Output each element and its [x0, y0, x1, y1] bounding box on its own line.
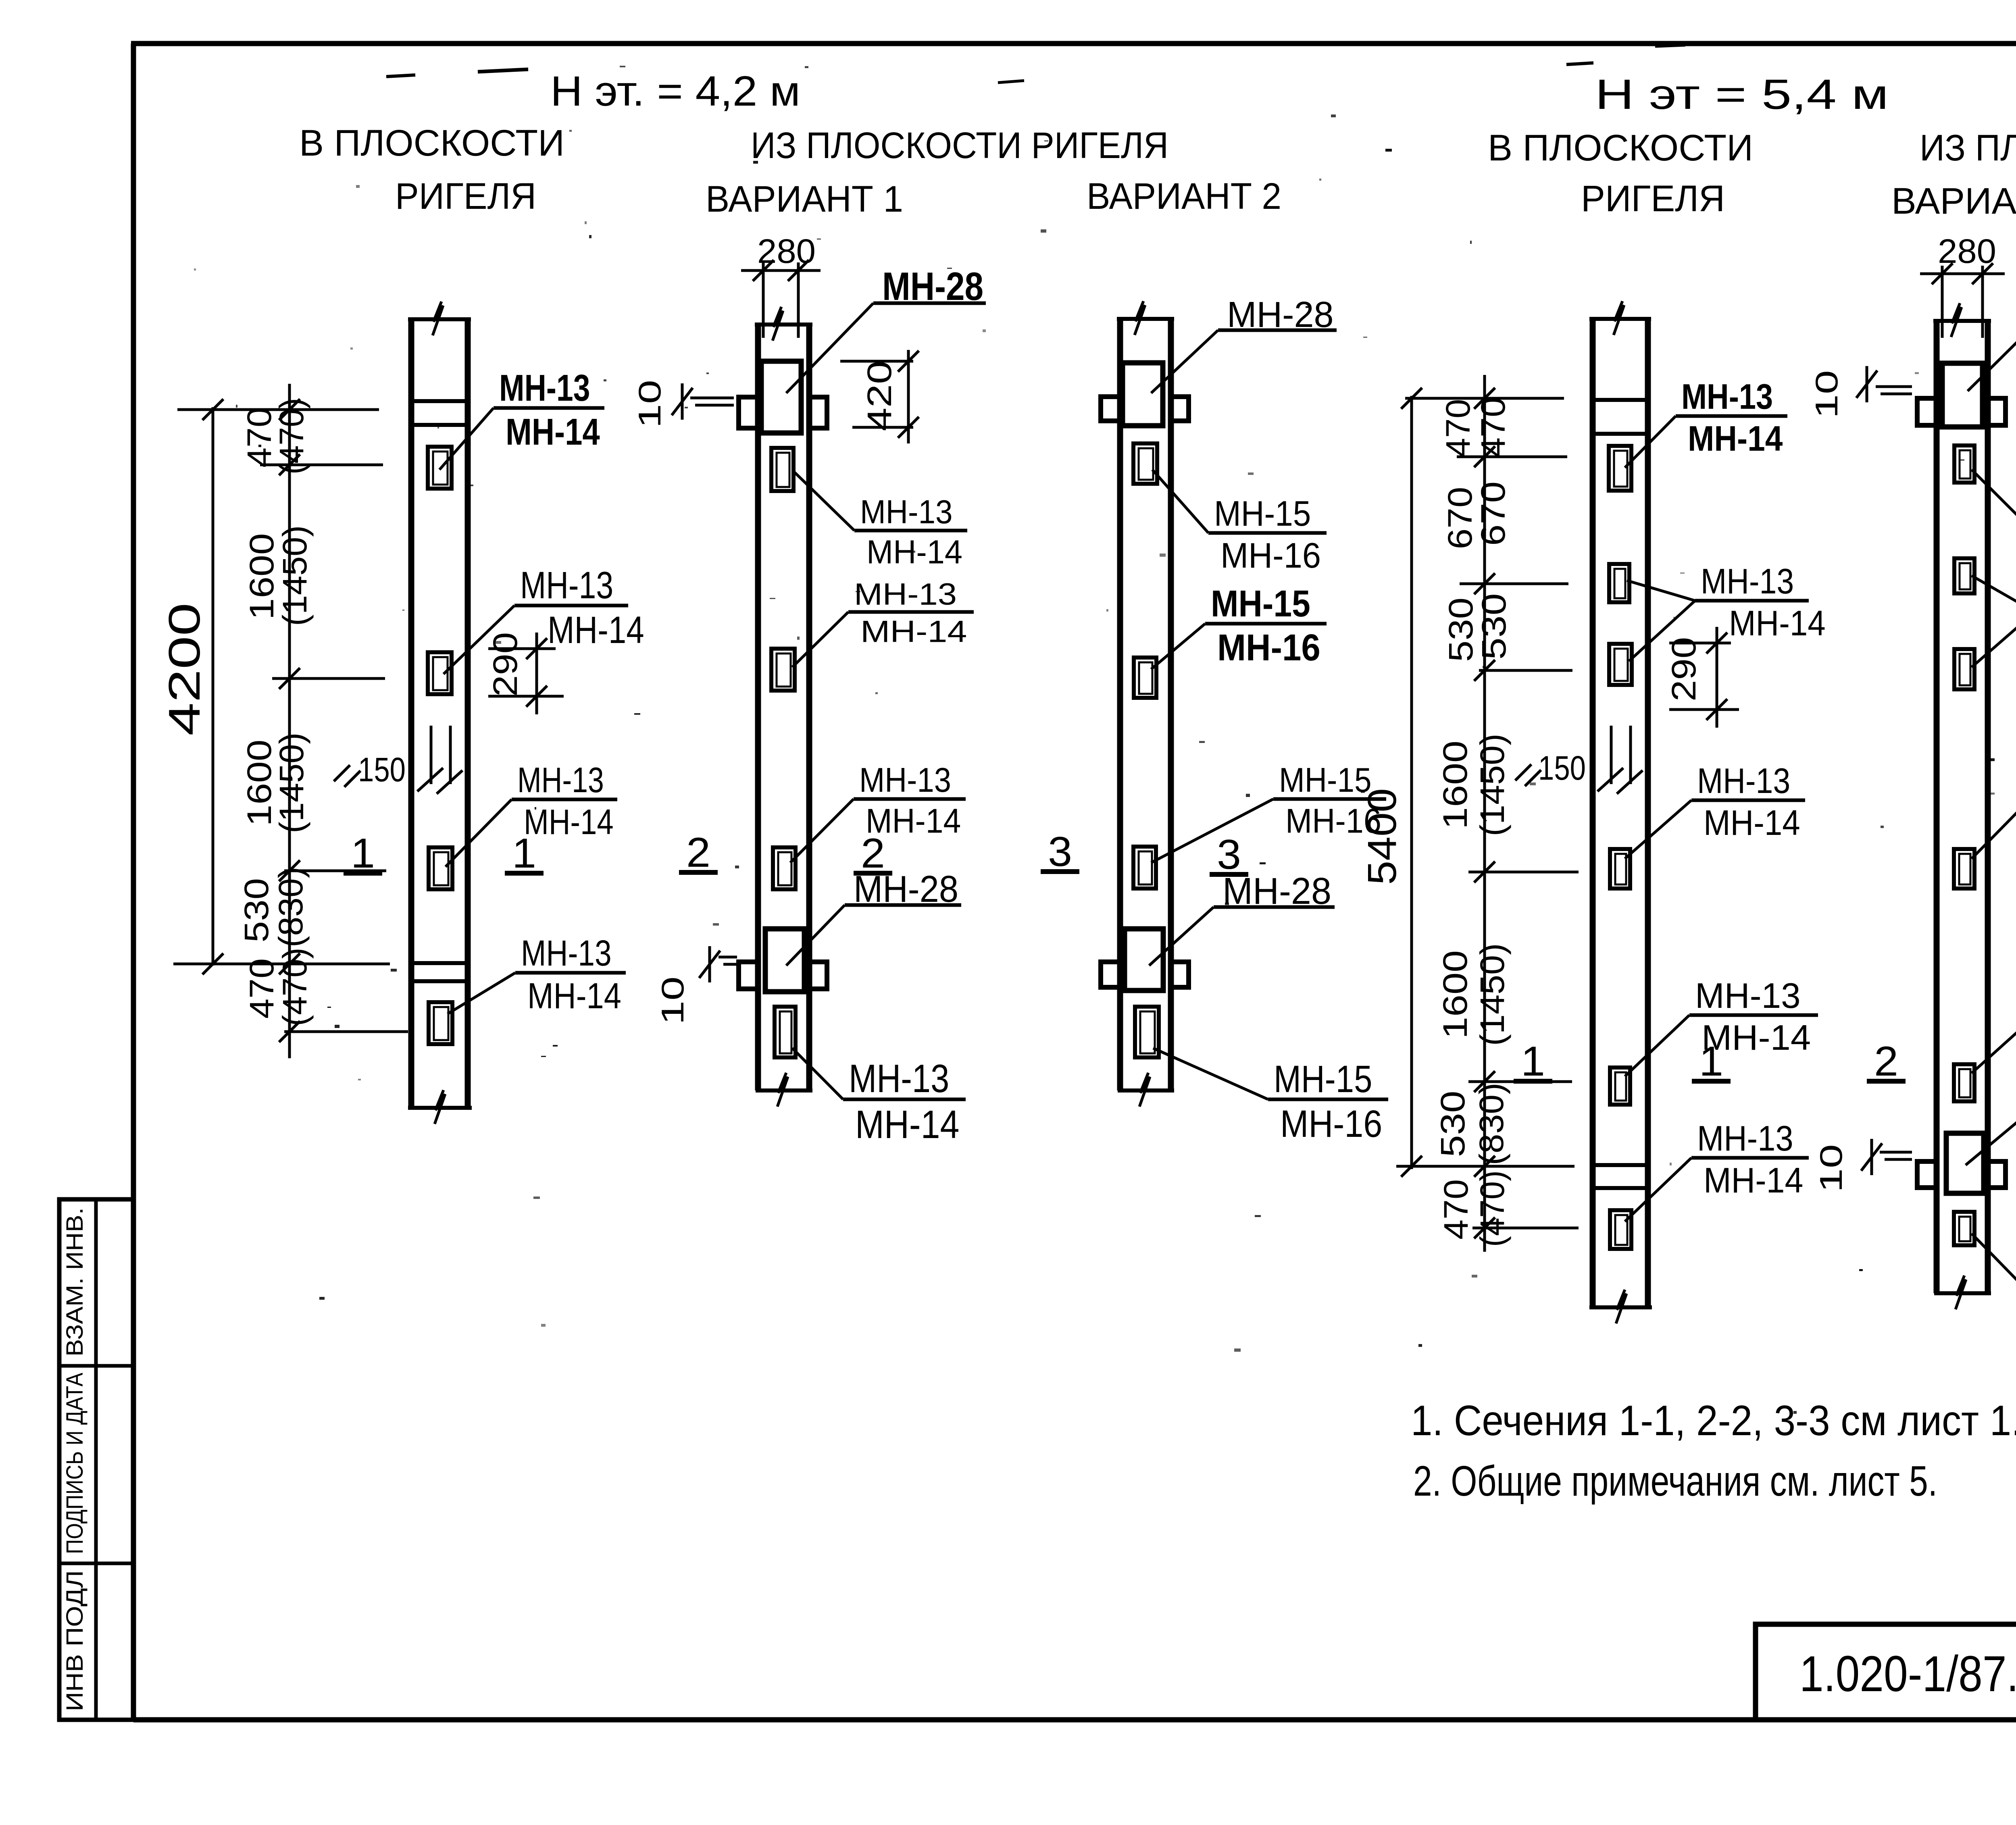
dim 10 (column 2 bottom) — [655, 946, 737, 1025]
svg-text:МН-13: МН-13 — [1701, 561, 1794, 601]
svg-text:МН-28: МН-28 — [882, 264, 983, 308]
svg-text:МН-13: МН-13 — [1697, 1118, 1793, 1158]
embed МН-13/МН-14 (K5 embed 3) — [1954, 649, 1974, 689]
svg-text:1600: 1600 — [243, 533, 281, 620]
svg-text:ПОДПИСЬ И ДАТА: ПОДПИСЬ И ДАТА — [62, 1373, 88, 1554]
heading ВАРИАНТ 1 (right) — [1891, 181, 2016, 222]
svg-text:(470): (470) — [1473, 1170, 1511, 1247]
leader (K5 embed 6) — [1972, 1234, 2016, 1298]
dim 10 (column 5 top) — [1809, 366, 1912, 418]
svg-text:РИГЕЛЯ: РИГЕЛЯ — [395, 176, 536, 217]
dim 280 (column 5) — [1920, 232, 2005, 338]
svg-text:530: 530 — [1434, 1091, 1472, 1157]
embed МН-13/МН-14 (K1 level 1) — [429, 847, 452, 889]
console МН-28 (K5 top) — [1917, 363, 2006, 427]
leader МН-28 (K3 top) — [1151, 330, 1218, 393]
svg-text:290: 290 — [1665, 637, 1703, 701]
leader (K5 embed 5) — [1972, 1012, 2016, 1073]
stray pen dashes near headings — [386, 45, 2016, 181]
leader МН-28 (K5 bottom) — [1966, 1113, 2016, 1165]
svg-text:МН-13: МН-13 — [520, 564, 613, 607]
label МН-28 (K2 bottom) — [845, 868, 961, 910]
svg-text:МН-13: МН-13 — [499, 367, 590, 409]
svg-text:530: 530 — [237, 878, 275, 943]
label МН-13/МН-14 (K1 top) — [494, 367, 604, 453]
svg-text:10: 10 — [1813, 1144, 1849, 1192]
svg-text:МН-14: МН-14 — [527, 976, 621, 1016]
leader (K3 level-3 embed) — [1151, 799, 1273, 863]
embed МН-13/МН-14 (K4 embed 4) — [1610, 849, 1630, 889]
svg-text:1: 1 — [1521, 1038, 1545, 1085]
dim 1600 / (1450) lower (right) — [1436, 943, 1511, 1046]
svg-text:(470): (470) — [273, 398, 310, 474]
label МН-13/МН-14 (K4 embed 1) — [1676, 377, 1787, 458]
svg-text:МН-13: МН-13 — [859, 761, 951, 799]
embed МН-13/МН-14 (K5 embed 4) — [1954, 849, 1974, 889]
svg-text:10: 10 — [632, 380, 667, 428]
note 1: Сечения 1-1, 2-2, 3-3 см лист 1 — [1411, 1397, 2016, 1444]
svg-text:(1450): (1450) — [276, 525, 314, 626]
svg-text:МН-13: МН-13 — [1697, 761, 1790, 801]
column K4 joint lines (top storey level) — [1593, 400, 1648, 434]
embed МН-13/МН-14 (K1 mid) — [428, 652, 452, 694]
svg-text:470: 470 — [1474, 397, 1512, 458]
svg-text:МН-13: МН-13 — [860, 493, 953, 531]
svg-text:1: 1 — [351, 830, 375, 877]
leader (K1 level-1 embed) — [446, 799, 512, 867]
embed МН-13/МН-14 (K4 embed 5) — [1610, 1068, 1630, 1105]
embed МН-13/МН-14 (K5 embed 5) — [1954, 1064, 1974, 1101]
dim 530 / (830) (right) — [1434, 1083, 1510, 1165]
extension lines (right chain) — [1396, 398, 1579, 1228]
svg-text:10: 10 — [1809, 370, 1844, 418]
svg-text:МН-13: МН-13 — [1695, 976, 1801, 1016]
svg-text:280: 280 — [1938, 232, 1996, 270]
label МН-15/МН-16 (K3 mid) — [1205, 583, 1327, 668]
svg-text:ИНВ ПОДЛ: ИНВ ПОДЛ — [62, 1570, 88, 1711]
section mark 3 (right of K3) — [1210, 831, 1248, 878]
svg-text:МН-13: МН-13 — [849, 1056, 949, 1101]
svg-text:МН-14: МН-14 — [1704, 1160, 1803, 1200]
column K2: из плоскости ригеля вариант 1, Нэт 4,2м — [755, 307, 812, 1107]
column K1 joint lines (bottom storey level) — [411, 963, 468, 981]
leader (K3 mid embed) — [1151, 624, 1205, 669]
svg-text:4200: 4200 — [160, 603, 209, 736]
svg-text:МН-13: МН-13 — [854, 577, 957, 612]
svg-text:МН-13: МН-13 — [521, 933, 612, 974]
svg-text:470: 470 — [1437, 1179, 1475, 1240]
svg-text:150: 150 — [358, 751, 406, 789]
label МН-13/МН-14 (K2 bottom) — [843, 1056, 966, 1147]
label МН-15/МН-16 (K3 top) — [1208, 493, 1327, 575]
column K1 joint lines (top storey level) — [411, 401, 468, 425]
svg-text:(1450): (1450) — [1473, 943, 1511, 1046]
svg-text:МН-15: МН-15 — [1274, 1058, 1372, 1101]
embed МН-13/МН-14 (K4 embed 3) — [1609, 644, 1632, 685]
svg-text:150: 150 — [1538, 749, 1586, 787]
leader МН-28 (K3 bottom) — [1149, 907, 1214, 966]
embed МН-13/МН-14 (K1 bottom) — [429, 1002, 452, 1044]
leader (K3 bottom embed) — [1153, 1048, 1268, 1099]
svg-text:МН-14: МН-14 — [524, 802, 614, 842]
dim 420 (column 2) — [840, 350, 919, 443]
svg-text:МН-14: МН-14 — [1688, 418, 1783, 458]
label МН-13/МН-14 (K2 level 2) — [854, 761, 966, 840]
svg-text:МН-14: МН-14 — [548, 609, 644, 651]
embed МН-15/МН-16 (K3 bottom) — [1135, 1007, 1159, 1057]
leader (K2 mid embed) — [792, 612, 848, 667]
svg-text:(830): (830) — [1472, 1083, 1510, 1165]
svg-text:2: 2 — [1874, 1038, 1898, 1085]
extension lines (left chain) — [173, 410, 408, 1032]
dim 470 / (470) top (left) — [240, 398, 310, 474]
svg-text:МН-15: МН-15 — [1211, 583, 1310, 624]
sidebar label ВЗАМ. ИНВ. — [62, 1207, 88, 1357]
svg-text:ВАРИАНТ 1: ВАРИАНТ 1 — [1891, 181, 2016, 222]
svg-text:1600: 1600 — [1436, 741, 1474, 829]
column K4: в плоскости ригеля, Нэт 5,4м — [1589, 301, 1652, 1323]
dim 1600 / (1450) lower (left) — [240, 732, 310, 833]
leader МН-28 (K5 top) — [1968, 306, 2016, 391]
label МН-13/МН-14 (K1 bottom) — [515, 933, 626, 1016]
leader МН-28 (K2 top) — [786, 303, 873, 393]
dim 10 (column 2 top) — [632, 380, 734, 428]
svg-text:280: 280 — [757, 232, 816, 270]
leader (K4 embed 6) — [1625, 1158, 1691, 1222]
embed МН-13/МН-14 (K5 embed 2) — [1954, 558, 1974, 593]
console МН-28 (K5 bottom) — [1917, 1133, 2006, 1193]
leader (K2 top embed) — [794, 472, 854, 531]
label МН-28 (K3 top) — [1218, 295, 1337, 335]
column K5: из плоскости ригеля вариант 1, Нэт 5,4м — [1933, 303, 1991, 1309]
leader (K2 bottom embed) — [792, 1048, 843, 1099]
label МН-15/МН-16 (K3 bottom) — [1268, 1058, 1388, 1145]
section mark 1 (right of K1) — [505, 830, 544, 877]
svg-text:670: 670 — [1441, 487, 1479, 549]
embed МН-13/МН-14 (K2 bottom) — [775, 1007, 796, 1057]
svg-text:МН-16: МН-16 — [1220, 535, 1321, 575]
sidebar stamp column — [59, 1199, 133, 1720]
dim 280 (column 2) — [741, 232, 821, 338]
heading ИЗ ПЛОСКОСТИ РИГЕЛЯ (right) — [1920, 127, 2016, 169]
dim 290 (column 1) — [486, 632, 564, 714]
sidebar label ПОДПИСЬ И ДАТА — [62, 1373, 88, 1554]
dim 150 with break marks (column 4) — [1515, 726, 1643, 794]
svg-text:В ПЛОСКОСТИ: В ПЛОСКОСТИ — [1488, 127, 1753, 169]
title block document number — [1799, 1646, 2016, 1702]
svg-text:1: 1 — [512, 830, 536, 877]
section mark 1 (right of K4) — [1692, 1038, 1731, 1085]
svg-text:530: 530 — [1475, 593, 1513, 660]
svg-text:2: 2 — [686, 829, 710, 876]
svg-text:670: 670 — [1474, 481, 1512, 546]
svg-text:ВАРИАНТ 2: ВАРИАНТ 2 — [1087, 176, 1281, 217]
svg-text:(470): (470) — [276, 948, 314, 1026]
label МН-13/МН-14 (K4 embeds 2+3) — [1695, 561, 1826, 643]
console МН-28 (K2 top) — [739, 361, 827, 433]
dim 670 | 670 (right) — [1441, 481, 1512, 549]
leader (K4 embed 1) — [1625, 416, 1676, 468]
dim 530 / (830) (left) — [237, 867, 310, 947]
svg-text:10: 10 — [655, 976, 690, 1025]
heading В ПЛОСКОСТИ (right) — [1488, 127, 1753, 169]
dim 10 (column 5 bottom) — [1813, 1139, 1912, 1192]
dimension line 5400 overall — [1360, 388, 1422, 1177]
svg-text:МН-15: МН-15 — [1279, 761, 1372, 799]
svg-text:МН-16: МН-16 — [1217, 626, 1320, 668]
column K4 joint lines (bottom storey level) — [1593, 1165, 1648, 1188]
dimension line 4200 overall — [160, 399, 223, 974]
svg-text:МН-13: МН-13 — [517, 760, 604, 800]
leader (K4 embed 5) — [1625, 1015, 1689, 1076]
label МН-13/МН-14 (K2 mid) — [848, 577, 974, 649]
svg-text:290: 290 — [486, 632, 524, 697]
column K3: из плоскости ригеля вариант 2, Нэт 4,2м — [1117, 301, 1174, 1107]
leader (K1 top embed) — [439, 408, 494, 470]
svg-text:ВЗАМ. ИНВ.: ВЗАМ. ИНВ. — [62, 1207, 88, 1357]
svg-text:5400: 5400 — [1360, 788, 1405, 885]
svg-text:1.020-1/87. 0-1(доп.2)- К5 ПЗ: 1.020-1/87. 0-1(доп.2)- К5 ПЗ — [1799, 1646, 2016, 1702]
embed МН-15/МН-16 (K3 top) — [1133, 443, 1157, 484]
label МН-13/МН-14 (K4 embed 4) — [1691, 761, 1805, 843]
label МН-13/МН-14 (K4 embed 6) — [1691, 1118, 1809, 1200]
title block — [1756, 1624, 2016, 1720]
svg-text:470: 470 — [1439, 399, 1477, 458]
dim 470 / (470) bottom (left) — [243, 948, 314, 1026]
svg-text:(1450): (1450) — [273, 732, 310, 833]
leader (K4 embed 4) — [1625, 800, 1691, 859]
embed МН-13/МН-14 (K2 level 2) — [773, 847, 796, 889]
svg-text:530: 530 — [1442, 597, 1480, 662]
svg-text:В ПЛОСКОСТИ: В ПЛОСКОСТИ — [299, 123, 564, 164]
svg-text:2. Общие примечания см. лис: 2. Общие примечания см. лист 5. — [1413, 1457, 1937, 1505]
dim 530 | 530 (right) — [1442, 593, 1513, 662]
embed МН-13/МН-14 (K5 embed 6) — [1954, 1212, 1974, 1245]
heading Нэт = 4,2м — [550, 68, 800, 115]
leader МН-28 (K2 bottom) — [786, 905, 845, 966]
svg-text:(830): (830) — [272, 867, 310, 947]
dim 1600 / (1450) upper (right) — [1436, 734, 1511, 837]
svg-text:МН-28: МН-28 — [1223, 870, 1331, 912]
section mark 2 (left of K5) — [1867, 1038, 1906, 1085]
heading РИГЕЛЯ (right) — [1581, 178, 1725, 219]
embed МН-13/МН-14 (K2 mid) — [771, 649, 795, 691]
label МН-28 (K2 top) — [873, 264, 986, 308]
svg-text:МН-15: МН-15 — [1214, 493, 1311, 533]
heading ИЗ ПЛОСКОСТИ РИГЕЛЯ (left) — [751, 125, 1168, 166]
dimension chain line (left) — [279, 384, 300, 1058]
svg-text:МН-28: МН-28 — [854, 868, 958, 910]
forked leader (K5 embeds 2+3) — [1972, 576, 2016, 667]
embed МН-15/МН-16 (K3 level 3) — [1133, 847, 1156, 889]
section mark 2 (right of K2) — [854, 830, 892, 877]
embed МН-13/МН-14 (K4 embed 1) — [1609, 446, 1631, 491]
dimension chain line (right) — [1474, 375, 1495, 1252]
note 2: Общие примечания см. лист 5 — [1413, 1457, 1937, 1505]
svg-text:1600: 1600 — [1436, 950, 1474, 1039]
embed МН-13/МН-14 (K4 embed 6) — [1610, 1210, 1631, 1249]
embed МН-13/МН-14 (K5 embed 1) — [1954, 445, 1974, 483]
svg-text:МН-28: МН-28 — [1227, 295, 1334, 335]
svg-text:МН-13: МН-13 — [1681, 377, 1773, 416]
section mark 1 (left of K1) — [344, 830, 382, 877]
embed МН-13/МН-14 (K4 embed 2) — [1609, 564, 1629, 602]
label МН-13/МН-14 (K2 top) — [854, 493, 967, 570]
svg-text:(1450): (1450) — [1473, 734, 1511, 837]
column K1: в плоскости ригеля, Нэт 4,2м — [408, 302, 472, 1124]
leader (K5 embed 4) — [1972, 795, 2016, 859]
svg-text:МН-14: МН-14 — [860, 614, 967, 649]
label МН-13/МН-14 (K4 embed 5) — [1689, 976, 1818, 1057]
svg-text:Н эт = 5,4 м: Н эт = 5,4 м — [1595, 71, 1889, 118]
heading РИГЕЛЯ (left) — [395, 176, 536, 217]
svg-text:МН-14: МН-14 — [855, 1102, 959, 1147]
embed МН-13/МН-14 (K1 top) — [428, 447, 452, 489]
dim 470 / (470) bottom (right) — [1437, 1170, 1511, 1247]
leader (K1 mid embed) — [444, 606, 514, 674]
svg-text:3: 3 — [1048, 828, 1072, 875]
svg-text:Н эт. = 4,2 м: Н эт. = 4,2 м — [550, 68, 800, 115]
forked leader (K4 embeds 2+3) — [1627, 581, 1695, 661]
embed МН-13/МН-14 (K2 top) — [771, 448, 793, 491]
svg-text:МН-16: МН-16 — [1280, 1103, 1382, 1145]
dim 150 with break marks (column 1) — [334, 726, 462, 794]
svg-text:470: 470 — [243, 958, 281, 1019]
dim 1600 / (1450) upper (left) — [243, 525, 314, 626]
dim 290 (column 4) — [1665, 627, 1739, 728]
leader (K1 bottom embed) — [448, 973, 515, 1014]
svg-text:РИГЕЛЯ: РИГЕЛЯ — [1581, 178, 1725, 219]
heading ВАРИАНТ 2 (left) — [1087, 176, 1281, 217]
heading В ПЛОСКОСТИ (left) — [299, 123, 564, 164]
svg-text:ИЗ ПЛОСКОСТИ РИГЕЛЯ: ИЗ ПЛОСКОСТИ РИГЕЛЯ — [1920, 127, 2016, 169]
svg-text:ВАРИАНТ 1: ВАРИАНТ 1 — [706, 179, 903, 220]
heading ВАРИАНТ 1 (left) — [706, 179, 903, 220]
dim 470 | 470 (right top) — [1439, 397, 1512, 458]
svg-text:МН-14: МН-14 — [506, 411, 600, 453]
svg-text:1: 1 — [1699, 1038, 1723, 1085]
label МН-13/МН-14 (K1 mid) — [514, 564, 644, 651]
label МН-28 (K3 bottom) — [1214, 870, 1335, 912]
leader (K5 embed 1) — [1972, 470, 2016, 531]
svg-text:МН-14: МН-14 — [1704, 803, 1800, 843]
section mark 3 (left of K3) — [1041, 828, 1079, 875]
svg-text:1. Сечения 1-1, 2-2, 3-3 см: 1. Сечения 1-1, 2-2, 3-3 см лист 1. — [1411, 1397, 2016, 1444]
section mark 2 (left of K2) — [679, 829, 718, 876]
svg-text:ИЗ ПЛОСКОСТИ РИГЕЛЯ: ИЗ ПЛОСКОСТИ РИГЕЛЯ — [751, 125, 1168, 166]
scan noise speckles — [194, 66, 2016, 1417]
leader (K2 level-2 embed) — [790, 799, 854, 863]
console МН-28 (K3 bottom) — [1101, 929, 1189, 991]
svg-text:МН-14: МН-14 — [1729, 603, 1826, 643]
label МН-13/МН-14 (K1 level 1) — [512, 760, 617, 842]
section mark 1 (left of K4) — [1514, 1038, 1552, 1085]
console МН-28 (K2 bottom) — [739, 929, 827, 992]
heading Нэт = 5,4м — [1595, 71, 1889, 118]
leader (K3 top embed) — [1152, 470, 1208, 533]
embed МН-15/МН-16 (K3 mid) — [1134, 658, 1156, 698]
sidebar label ИНВ ПОДЛ — [62, 1570, 88, 1711]
svg-text:420: 420 — [860, 361, 898, 431]
label МН-15/МН-16 (K3 level 3) — [1273, 761, 1386, 840]
console МН-28 (K3 top) — [1101, 363, 1189, 426]
